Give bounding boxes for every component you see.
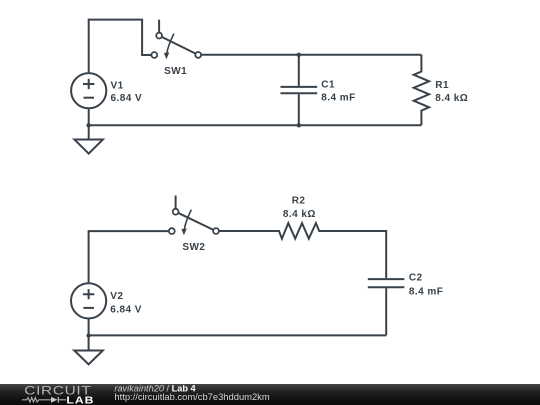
svg-text:6.84 V: 6.84 V <box>111 93 143 104</box>
svg-text:R2: R2 <box>292 195 306 206</box>
svg-text:http://circuitlab.com/cb7e3hdd: http://circuitlab.com/cb7e3hddum2km <box>114 391 269 402</box>
svg-text:6.84 V: 6.84 V <box>110 304 142 315</box>
svg-text:R1: R1 <box>435 80 449 91</box>
svg-text:V1: V1 <box>111 80 124 91</box>
svg-text:8.4 mF: 8.4 mF <box>409 287 443 298</box>
svg-text:8.4 kΩ: 8.4 kΩ <box>435 93 468 104</box>
svg-text:8.4 mF: 8.4 mF <box>321 93 355 104</box>
svg-text:C1: C1 <box>321 80 335 91</box>
svg-text:LAB: LAB <box>66 396 94 405</box>
svg-text:8.4 kΩ: 8.4 kΩ <box>283 209 316 220</box>
svg-text:SW2: SW2 <box>182 242 205 253</box>
svg-text:C2: C2 <box>409 273 423 284</box>
svg-text:SW1: SW1 <box>164 66 187 77</box>
svg-text:V2: V2 <box>110 291 123 302</box>
